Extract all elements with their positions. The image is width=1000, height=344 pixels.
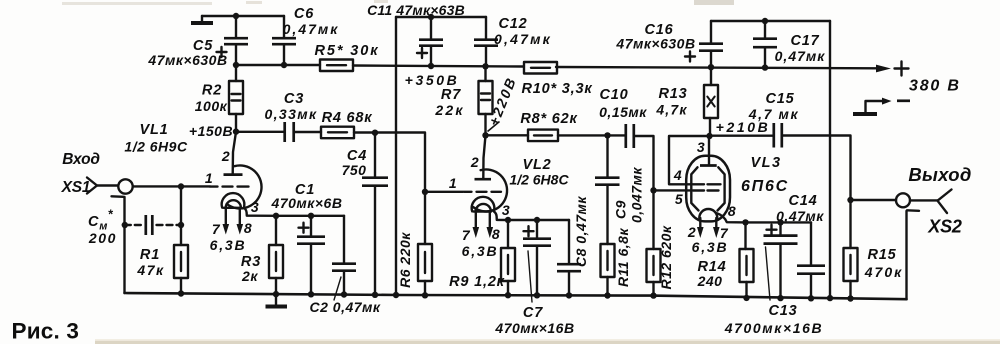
svg-text:R6 220к: R6 220к	[397, 232, 413, 288]
svg-text:C9: C9	[613, 200, 629, 219]
svg-text:200: 200	[88, 230, 117, 246]
node C4 tap	[372, 130, 378, 136]
svg-text:8: 8	[244, 220, 252, 236]
node C16/R13 at rail	[708, 64, 714, 70]
svg-text:C8 0,47мк: C8 0,47мк	[573, 196, 589, 267]
scan artifact stripe bottom	[95, 339, 1000, 344]
wire VL2 cathode bus	[508, 219, 569, 221]
svg-text:4: 4	[673, 167, 682, 183]
resistor R3	[241, 216, 283, 294]
capacitor C16	[615, 21, 723, 67]
wire grid VL3	[654, 189, 693, 191]
node VL2 cathode / R9	[505, 217, 511, 223]
wire decoupled node to R5	[236, 64, 320, 66]
tube VL1 cathode (pin 3)	[222, 193, 276, 216]
tube VL2 grid (pin 1) dashed	[449, 175, 501, 192]
svg-text:2: 2	[221, 148, 230, 164]
node C8 at rail	[566, 292, 572, 298]
capacitor C5	[147, 16, 248, 68]
capacitor C3	[264, 91, 317, 142]
node C7 top	[534, 217, 540, 223]
svg-text:R10* 3,3к: R10* 3,3к	[522, 81, 593, 97]
svg-text:1: 1	[449, 175, 457, 191]
tube VL1 grid (pin 1) dashed	[205, 170, 249, 187]
tube VL1 heater (pins 7,8)	[210, 200, 253, 253]
svg-text:0,47мк: 0,47мк	[494, 31, 552, 47]
capacitor C10	[599, 87, 653, 190]
svg-text:7: 7	[212, 221, 221, 237]
wire top-left ground bus	[202, 15, 284, 17]
svg-text:C15: C15	[766, 91, 795, 107]
svg-text:6,3В: 6,3В	[210, 237, 247, 253]
tube VL1 anode (pin 2)	[221, 132, 243, 175]
svg-text:Рис. 3: Рис. 3	[12, 319, 80, 344]
svg-text:3: 3	[697, 139, 705, 155]
svg-text:7: 7	[462, 227, 471, 243]
node R3 at rail / chassis ground	[266, 291, 288, 307]
svg-text:2: 2	[470, 154, 479, 170]
wire anode VL2 to R8	[486, 134, 529, 136]
svg-text:3: 3	[502, 202, 510, 218]
svg-text:0,33мк: 0,33мк	[264, 106, 317, 122]
resistor R14	[697, 222, 754, 298]
tube VL2 heater (pins 7,8)	[462, 204, 501, 259]
svg-text:C13: C13	[769, 303, 798, 319]
node output / R15	[847, 197, 853, 203]
svg-text:C6: C6	[294, 6, 314, 22]
svg-text:4700мк×16В: 4700мк×16В	[724, 320, 823, 336]
wire VL3 screen (pin 4) tie	[669, 136, 710, 184]
tube VL3 beam plates	[691, 167, 724, 210]
svg-text:VL1: VL1	[140, 122, 169, 138]
wire R5 to +350V rail	[353, 66, 523, 67]
tube VL2 anode (pin 2)	[470, 135, 491, 179]
node C5 top	[233, 13, 239, 19]
wire +380V rail with arrow	[556, 62, 961, 95]
resistor R5	[315, 43, 380, 71]
node R14 at rail	[743, 295, 749, 301]
node +220V anode VL2	[482, 74, 519, 138]
node R11 at rail	[604, 292, 610, 298]
node C12/R7 at +350V	[482, 63, 488, 69]
svg-text:5: 5	[675, 191, 683, 207]
node R15 at rail	[847, 295, 853, 301]
svg-text:47мк×630В: 47мк×630В	[615, 36, 695, 52]
wire C3 to R4	[294, 131, 321, 133]
wire XS1 to VL1 grid	[133, 185, 210, 187]
capacitor C6	[272, 6, 339, 65]
svg-text:0,047мк: 0,047мк	[629, 167, 645, 223]
svg-text:+350В: +350В	[405, 72, 460, 88]
node C7 at rail	[534, 292, 540, 298]
node C4 at rail	[372, 292, 378, 298]
svg-text:2к: 2к	[241, 268, 258, 284]
node +210V anode VL3	[706, 119, 770, 139]
svg-text:6,3В: 6,3В	[692, 239, 729, 255]
svg-text:0,47мк: 0,47мк	[776, 208, 824, 224]
wire ground return C11/C12 (vertical)	[395, 17, 397, 295]
svg-text:240: 240	[697, 273, 723, 289]
node +150V anode VL1	[189, 123, 239, 139]
svg-text:Вход: Вход	[62, 151, 100, 168]
ground (top-left chassis)	[191, 16, 213, 23]
svg-text:C2 0,47мк: C2 0,47мк	[310, 299, 381, 315]
svg-text:750: 750	[342, 162, 367, 178]
tube VL2 cathode (pin 3)	[472, 197, 510, 220]
svg-text:Выход: Выход	[908, 164, 971, 185]
resistor R8	[520, 111, 577, 141]
node right ground return at rail	[827, 295, 833, 301]
capacitor C15 (output coupling)	[710, 91, 851, 200]
svg-text:47к: 47к	[136, 262, 164, 278]
resistor R4	[321, 110, 372, 138]
svg-text:C11 47мк×63В: C11 47мк×63В	[367, 2, 465, 18]
svg-text:R5* 30к: R5* 30к	[315, 43, 380, 59]
wire VL3 cathode bus	[746, 221, 812, 223]
node C1 top	[308, 213, 314, 219]
resistor R7	[434, 66, 492, 135]
resistor R10	[522, 62, 593, 97]
node R8/C9/C10	[604, 132, 610, 138]
connector XS1 input	[61, 151, 133, 197]
node C13 at rail	[777, 295, 783, 301]
capacitor C17	[753, 21, 825, 68]
wire top C11/C12 bus	[396, 16, 486, 18]
connector XS2 output	[851, 164, 972, 237]
wire R4 to VL2 grid corner	[354, 133, 425, 192]
svg-text:+150В: +150В	[189, 123, 233, 139]
svg-text:3: 3	[251, 199, 259, 215]
svg-text:R15: R15	[868, 247, 897, 263]
svg-text:R7: R7	[441, 87, 461, 103]
tube VL3 heater (pins 2,7)	[687, 218, 729, 255]
resistor R15	[844, 200, 904, 299]
svg-text:XS1: XS1	[61, 179, 91, 196]
tube VL3 screen grid (pin 4) dashed	[673, 167, 721, 184]
svg-text:VL3: VL3	[750, 155, 781, 171]
tube VL3 anode (pin 3)	[697, 136, 717, 166]
tube VL3 (6P6S) envelope	[686, 155, 789, 221]
capacitor C8	[557, 196, 589, 296]
node VL2 grid / R6	[422, 189, 428, 195]
svg-text:470мк×16В: 470мк×16В	[494, 320, 574, 336]
svg-text:22к: 22к	[434, 102, 464, 118]
svg-text:XS2: XS2	[927, 217, 962, 237]
minus terminal of 380V with chassis ground	[853, 98, 910, 114]
capacitor C11	[367, 2, 465, 88]
svg-text:4,7 мк: 4,7 мк	[748, 106, 799, 122]
svg-text:C3: C3	[284, 91, 304, 107]
svg-text:1: 1	[205, 170, 213, 186]
node C17 bottom at rail	[762, 64, 768, 70]
svg-text:0,47мк: 0,47мк	[775, 48, 826, 64]
capacitor C12	[474, 16, 552, 66]
node R1 at rail	[178, 290, 184, 296]
svg-text:R12 620к: R12 620к	[658, 225, 674, 289]
wire coupling corner to VL2 grid	[425, 191, 463, 193]
svg-text:R1: R1	[140, 247, 160, 263]
node C11 bottom / +350V	[428, 63, 434, 69]
wire XS2 sleeve to rail	[905, 211, 907, 299]
wire ground return C16/C17 (vertical right)	[829, 21, 831, 298]
capacitor C4	[342, 133, 388, 295]
capacitor C9 (series with R11)	[595, 135, 645, 244]
tube VL2 (1/2 6N8S) envelope	[473, 157, 569, 211]
node C1 at rail	[308, 291, 314, 297]
svg-text:8: 8	[728, 203, 736, 219]
resistor R6	[397, 192, 432, 295]
capacitor Cм (dashed mounting capacitance)	[88, 208, 184, 247]
tube VL3 control grid (pin 5) dashed	[675, 191, 719, 208]
svg-text:C12: C12	[499, 16, 528, 32]
resistor R11	[601, 228, 632, 296]
svg-text:R13: R13	[659, 86, 688, 102]
svg-text:C7: C7	[523, 305, 543, 321]
resistor R2	[195, 65, 243, 132]
capacitor C7	[494, 220, 574, 336]
svg-text:C17: C17	[791, 33, 820, 49]
node C14 at rail	[808, 295, 814, 301]
tube VL1 (1/2 6N9S) envelope	[124, 122, 261, 208]
node R9 at rail	[505, 292, 511, 298]
svg-text:R4 68к: R4 68к	[322, 110, 373, 126]
capacitor C14	[776, 193, 825, 298]
node C2 at rail	[341, 291, 347, 297]
capacitor C1	[271, 182, 343, 294]
svg-text:C10: C10	[600, 87, 629, 103]
svg-text:8: 8	[492, 226, 500, 242]
node ground return at rail	[393, 292, 399, 298]
svg-text:100к: 100к	[195, 98, 228, 114]
node grid/R1	[178, 183, 184, 189]
svg-text:380 В: 380 В	[909, 78, 961, 95]
svg-text:4,7к: 4,7к	[655, 102, 687, 118]
svg-text:1/2 6Н9С: 1/2 6Н9С	[124, 139, 188, 155]
resistor R13	[655, 67, 718, 136]
wire top C16/C17 ground bus	[711, 20, 830, 22]
svg-text:0,47мк: 0,47мк	[283, 21, 340, 37]
node C5 bottom / R2 top	[233, 62, 239, 68]
wire R8 to C9/C10 node	[558, 134, 608, 136]
scan artifact marks top	[62, 0, 734, 5]
resistor R1	[136, 187, 188, 294]
svg-text:470к: 470к	[864, 264, 903, 280]
tube VL3 cathode (pin 8)	[699, 203, 745, 222]
node C17 top	[762, 18, 768, 24]
resistor R9	[449, 220, 515, 295]
wire XS1 sleeve to rail	[123, 197, 125, 293]
capacitor C13	[724, 222, 823, 336]
node VL3 cathode / R14	[742, 219, 748, 225]
node R12 at rail	[650, 292, 656, 298]
wire VL1 cathode bus	[276, 215, 344, 217]
svg-text:47мк×630В: 47мк×630В	[147, 52, 227, 68]
node C13 top	[777, 219, 783, 225]
wire anode node to C3	[236, 131, 284, 133]
svg-text:R2: R2	[202, 83, 222, 99]
resistor R12	[647, 190, 675, 295]
node R6 at rail	[422, 292, 428, 298]
svg-text:R11 6,8к: R11 6,8к	[615, 228, 631, 287]
svg-text:0,15мк: 0,15мк	[599, 104, 647, 120]
node R3 top	[273, 213, 279, 219]
svg-text:2: 2	[687, 224, 696, 240]
svg-text:6П6С: 6П6С	[741, 178, 789, 195]
svg-text:C14: C14	[789, 193, 818, 209]
node C11 top	[428, 14, 434, 20]
svg-text:6,3В: 6,3В	[462, 243, 499, 259]
node C6 bottom	[281, 62, 287, 68]
svg-text:1/2 6Н8С: 1/2 6Н8С	[509, 172, 569, 188]
svg-text:R9 1,2к: R9 1,2к	[449, 274, 505, 290]
svg-text:R8* 62к: R8* 62к	[520, 111, 577, 127]
svg-text:470мк×6В: 470мк×6В	[271, 195, 343, 211]
wire ground rail (bottom bus)	[125, 293, 907, 299]
capacitor C2	[310, 216, 381, 315]
node VL3 grid / R12	[650, 187, 656, 193]
